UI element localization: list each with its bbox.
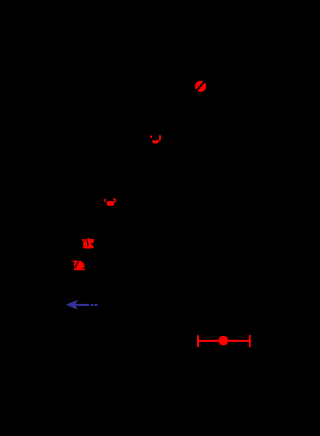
atom marker C left crescent [104,199,106,203]
annotation arrow tail dash 1 [91,304,94,306]
annotation arrow tail (solid segment) [76,304,90,306]
black notch left of marker E [72,263,74,266]
atom marker B left edge dot [150,136,152,138]
atom marker A (red disc, top right) [195,81,206,92]
atom marker E right bump [83,263,84,268]
atom marker E bottom bar [74,269,85,271]
bond over marker E (steep black diagonal) [75,260,79,267]
atom marker C (red blob, lower segment visible) [107,201,115,206]
atom marker D top-right stub [91,239,94,243]
atom marker B (red disc, mostly occluded: bottom arc) [152,140,160,143]
bond over marker A (black diagonal) [196,80,206,92]
atom marker D bottom bar [83,246,93,248]
annotation arrow tail dash 2 [94,304,97,306]
atom marker D (red disc) [83,238,93,248]
annotation arrow head (blue, pointing left) [66,300,78,310]
scale bar horizontal line [197,340,251,342]
atom marker C top-right hook [113,199,116,203]
bond over marker D (steep black diagonal) [87,238,88,246]
bond over marker D (upper-left black diagonal) [82,238,85,243]
atom marker B right edge mark [159,135,161,140]
atom marker E (red disc) [74,260,84,270]
atom marker D top-left dot [82,239,84,241]
scale bar centre dot [219,336,229,346]
black notch right of marker D [91,243,94,245]
atom marker E top bar [73,261,81,263]
scale bar left cap [197,335,199,347]
scale bar right cap [249,335,251,347]
atom marker E left dot [73,264,74,265]
